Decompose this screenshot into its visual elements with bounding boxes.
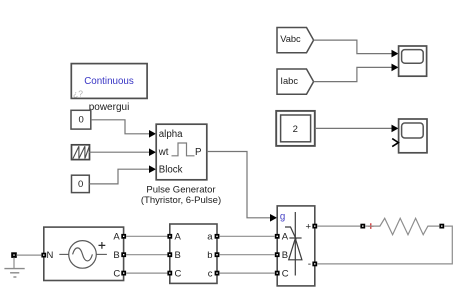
- svg-text:A: A: [282, 232, 289, 243]
- svg-text:0: 0: [78, 179, 83, 190]
- svg-text:B: B: [282, 250, 288, 261]
- wire meas b to bridge B: [219, 254, 274, 256]
- svg-text:Vabc: Vabc: [280, 34, 301, 44]
- svg-text:+: +: [306, 221, 312, 232]
- svg-text:B: B: [113, 250, 119, 261]
- powergui block U_powergui: [71, 64, 147, 99]
- scope U_scope1: [399, 46, 427, 76]
- svg-text:¿?: ¿?: [73, 88, 83, 98]
- svg-text:powergui: powergui: [89, 102, 130, 113]
- svg-text:C: C: [282, 268, 289, 279]
- port bridge plus: [312, 224, 317, 229]
- port src A: [121, 234, 126, 239]
- svg-text:C: C: [175, 268, 182, 279]
- svg-text:P: P: [195, 147, 201, 158]
- wire constant0b to Block: [89, 169, 149, 184]
- wire sawtooth to wt: [89, 151, 149, 153]
- constant C_zero1 value 0: [71, 110, 91, 129]
- port bridge B: [275, 252, 280, 257]
- svg-text:N: N: [47, 250, 54, 261]
- svg-text:Block: Block: [159, 165, 183, 176]
- svg-text:alpha: alpha: [159, 129, 183, 140]
- wire 2 to scope2: [315, 127, 392, 129]
- svg-text:B: B: [175, 250, 181, 261]
- port bridge C: [275, 271, 280, 276]
- svg-text:A: A: [175, 232, 182, 243]
- wire Vabc to scope1 in1: [314, 40, 392, 54]
- port meas A: [167, 234, 172, 239]
- wire bridge plus to resistor: [317, 225, 360, 227]
- port meas a: [215, 234, 220, 239]
- three-phase measurement U_meas: [170, 224, 217, 283]
- svg-text:b: b: [207, 250, 212, 261]
- wire src C to meas C: [126, 272, 167, 274]
- ground G1: [4, 253, 24, 277]
- From tag Vabc: [277, 28, 314, 53]
- pulse generator block U_pulsegen: [156, 124, 207, 180]
- svg-text:-: -: [308, 259, 311, 270]
- wire meas c to bridge C: [219, 272, 274, 274]
- wire constant0 to alpha: [91, 120, 149, 134]
- wire meas a to bridge A: [219, 235, 274, 237]
- svg-text:C: C: [113, 268, 120, 279]
- port src C: [121, 271, 126, 276]
- svg-text:A: A: [113, 232, 120, 243]
- constant C_zero2 value 0: [72, 175, 90, 192]
- port meas c: [215, 271, 220, 276]
- sawtooth source block: [72, 145, 90, 160]
- wire src A to meas A: [126, 235, 167, 237]
- thyristor symbol: [285, 212, 302, 276]
- port bridge minus: [312, 262, 317, 267]
- port src N: [41, 253, 46, 258]
- svg-text:0: 0: [79, 115, 84, 126]
- From tag Iabc: [277, 69, 314, 94]
- port meas C: [167, 271, 172, 276]
- svg-text:Continuous: Continuous: [84, 76, 134, 87]
- svg-text:wt: wt: [158, 147, 169, 158]
- wire Iabc to scope1 in2: [314, 67, 392, 81]
- three-phase source U_src: [44, 227, 124, 280]
- resistor R load: [360, 218, 444, 234]
- port meas b: [215, 252, 220, 257]
- wire P to g: [207, 152, 270, 218]
- svg-text:c: c: [208, 268, 213, 279]
- svg-text:Iabc: Iabc: [280, 76, 298, 86]
- svg-text:(Thyristor, 6-Pulse): (Thyristor, 6-Pulse): [141, 195, 221, 206]
- wire src B to meas B: [126, 254, 167, 256]
- port bridge A: [275, 234, 280, 239]
- scope U_scope2: [392, 119, 427, 153]
- svg-text:2: 2: [293, 124, 298, 135]
- port meas B: [167, 252, 172, 257]
- svg-text:Pulse Generator: Pulse Generator: [146, 185, 215, 196]
- wire ground to N: [16, 254, 41, 256]
- display block D2 value 2: [276, 111, 315, 146]
- wire resistor to bridge minus loop: [317, 226, 452, 264]
- svg-text:a: a: [207, 232, 213, 243]
- thyristor bridge U_bridge: [277, 206, 315, 286]
- port src B: [121, 252, 126, 257]
- svg-text:g: g: [280, 212, 285, 223]
